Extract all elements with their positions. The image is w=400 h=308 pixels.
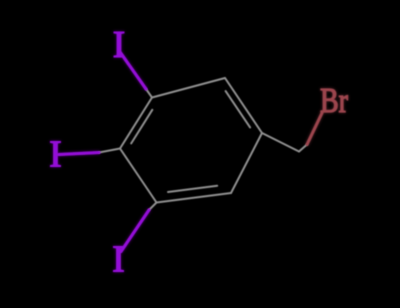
soft glow underlay for colored atoms and hetero bonds <box>49 24 348 281</box>
carbon skeleton <box>99 78 307 210</box>
colored hetero atoms and bonds <box>49 24 348 281</box>
